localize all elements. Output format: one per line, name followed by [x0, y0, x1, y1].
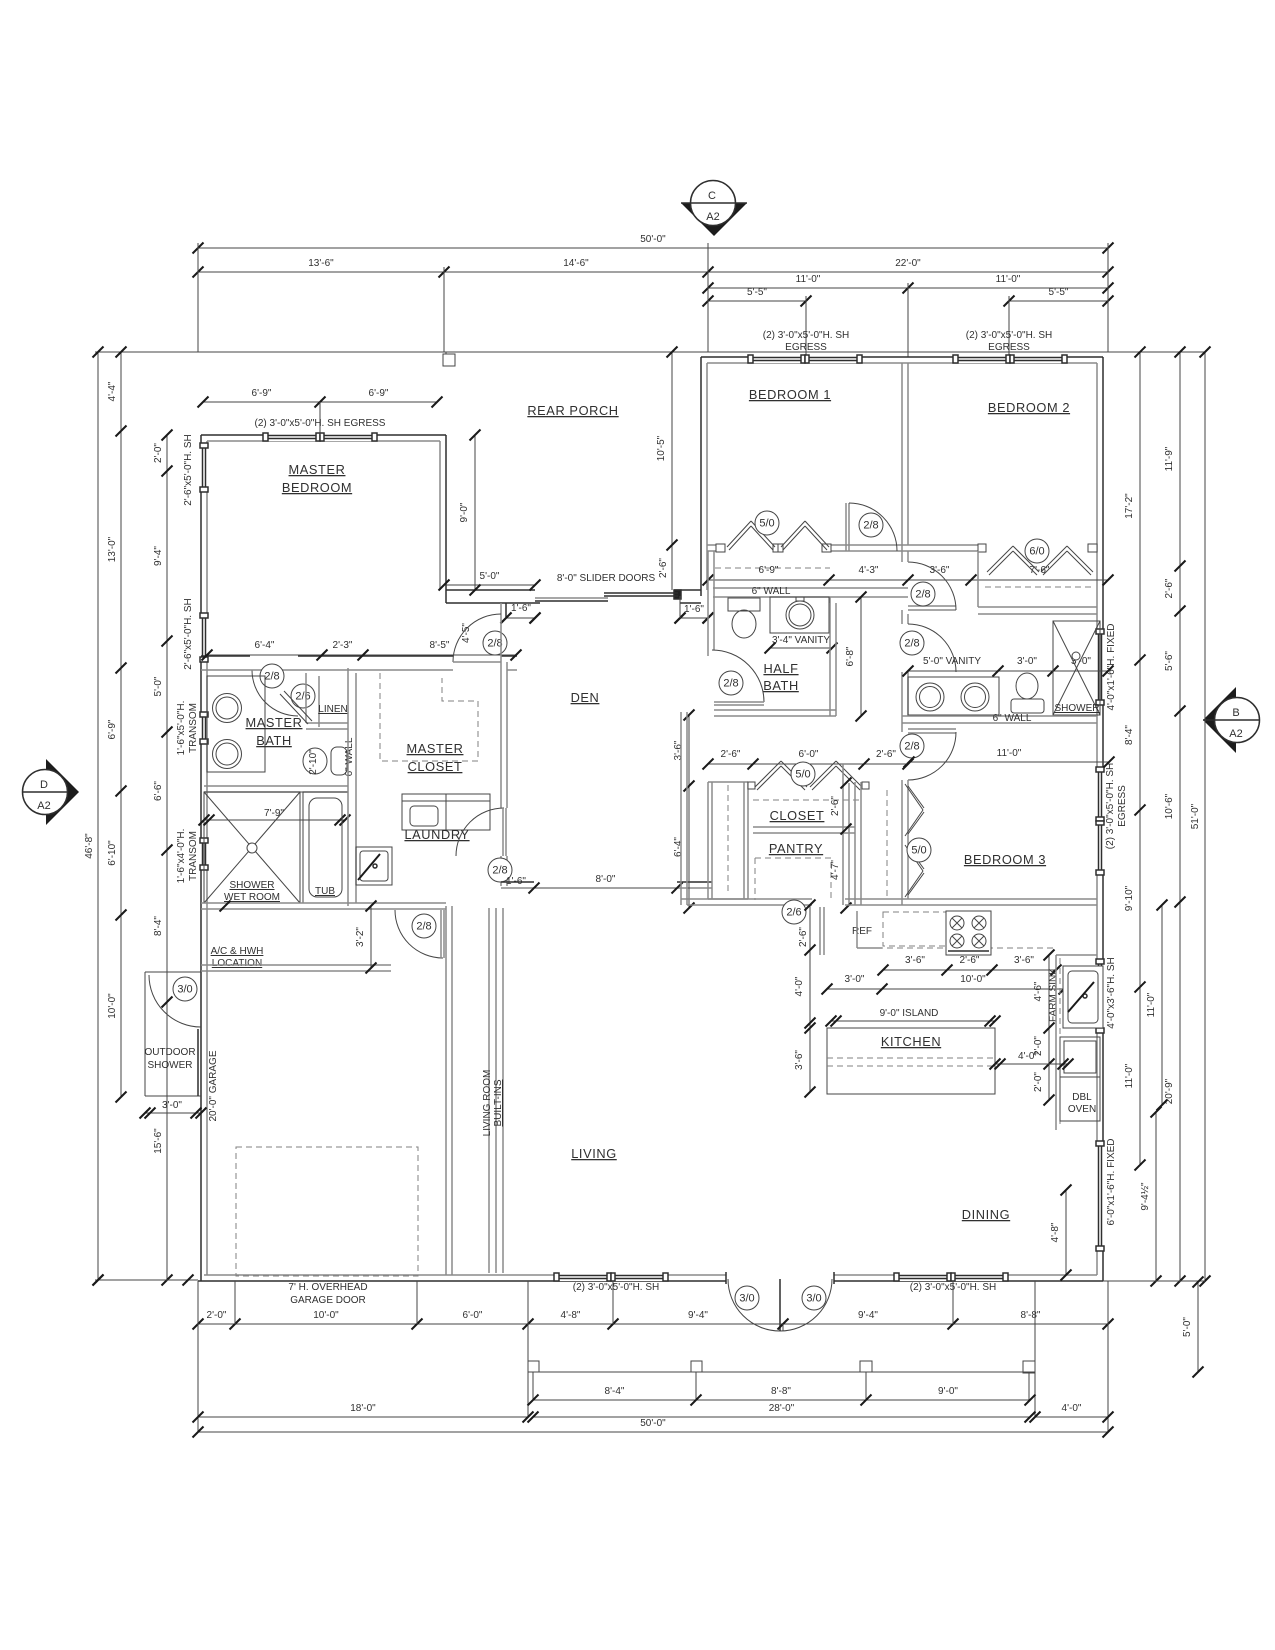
svg-text:6" WALL: 6" WALL	[993, 713, 1032, 724]
bottom wall extension right	[1103, 1280, 1205, 1282]
svg-text:2'-6": 2'-6"	[830, 796, 841, 816]
porch posts bottom	[528, 1361, 539, 1372]
svg-text:TRANSOM: TRANSOM	[188, 831, 199, 881]
svg-text:50'-0": 50'-0"	[640, 1418, 666, 1429]
svg-text:MASTER: MASTER	[407, 741, 464, 756]
kitchen counter dashed edge	[857, 947, 1056, 949]
outdoor shower	[144, 972, 146, 1096]
exterior wall bottom	[198, 1280, 1103, 1282]
svg-text:6'-0"x1'-6"H. FIXED: 6'-0"x1'-6"H. FIXED	[1106, 1138, 1117, 1225]
dim row 5-5 left	[708, 300, 806, 302]
dim 50-0 top	[198, 247, 1108, 249]
svg-text:BATH: BATH	[763, 678, 799, 693]
svg-text:8'-4": 8'-4"	[153, 916, 164, 936]
svg-text:D: D	[40, 779, 48, 791]
master suite dims	[207, 654, 516, 656]
svg-text:6" WALL: 6" WALL	[752, 586, 791, 597]
door marker 3/0 outdoor	[173, 977, 197, 1001]
dbl oven	[1060, 1077, 1100, 1121]
svg-text:1'-6"x4'-0"H.: 1'-6"x4'-0"H.	[176, 829, 187, 884]
dishwasher	[1060, 1037, 1100, 1077]
svg-text:2/8: 2/8	[904, 741, 919, 753]
svg-text:MASTER: MASTER	[289, 462, 346, 477]
master egress dims	[203, 401, 437, 403]
svg-text:10'-0": 10'-0"	[960, 974, 986, 985]
left chain inner	[166, 435, 168, 1280]
door marker 3/0 right	[802, 1286, 826, 1310]
svg-text:3'-0": 3'-0"	[162, 1100, 182, 1111]
bottom extension lines	[197, 1281, 199, 1432]
svg-text:5'-0": 5'-0"	[153, 676, 164, 696]
svg-text:4'-4": 4'-4"	[107, 381, 118, 401]
den hall south wall	[501, 881, 534, 883]
svg-text:2'-6": 2'-6"	[658, 558, 669, 578]
svg-text:9'-4": 9'-4"	[688, 1310, 708, 1321]
exterior wall right	[1102, 357, 1104, 1281]
bedroom2 closet south wall	[978, 606, 1097, 608]
bath laundry divider wall	[347, 668, 349, 906]
svg-text:2'-0": 2'-0"	[207, 1310, 227, 1321]
dim 18-0	[198, 1416, 528, 1418]
svg-text:2/6: 2/6	[295, 691, 310, 703]
shower wet room	[204, 792, 300, 903]
svg-text:20'-0" GARAGE: 20'-0" GARAGE	[208, 1050, 219, 1121]
dim 11-0 kitchen right	[1161, 905, 1163, 1105]
svg-text:5'-5": 5'-5"	[1049, 287, 1069, 298]
half bath door 2/8	[712, 650, 764, 702]
svg-text:6'-4": 6'-4"	[255, 640, 275, 651]
dim 28-0	[533, 1416, 1030, 1418]
closet south wall	[753, 826, 855, 828]
bedroom3 west wall	[854, 782, 856, 905]
masterbath lower divider	[204, 785, 348, 787]
svg-text:EGRESS: EGRESS	[1117, 785, 1128, 827]
ac closet door 2/8	[395, 910, 443, 958]
svg-text:11'-0": 11'-0"	[1124, 1063, 1135, 1088]
svg-text:9'-0": 9'-0"	[938, 1386, 958, 1397]
svg-text:DEN: DEN	[571, 690, 600, 705]
door marker 6/0 bedroom2	[1025, 539, 1049, 563]
svg-text:11'-9": 11'-9"	[1164, 446, 1175, 471]
kitchen left dims	[809, 905, 811, 1092]
exterior wall left	[200, 435, 202, 1281]
svg-text:2'-6": 2'-6"	[960, 955, 980, 966]
svg-text:10'-5": 10'-5"	[656, 435, 667, 461]
svg-text:4'-7": 4'-7"	[830, 860, 841, 880]
slider dims	[444, 584, 535, 586]
svg-text:8'-4": 8'-4"	[1124, 725, 1135, 745]
svg-text:A/C & HWH: A/C & HWH	[211, 946, 264, 957]
dim 50-0 bottom	[198, 1431, 1108, 1433]
bath2 door 2/8	[908, 624, 956, 672]
svg-text:4'-0": 4'-0"	[794, 976, 805, 996]
farm sink	[1063, 966, 1103, 1028]
svg-text:BUILT-INS: BUILT-INS	[493, 1079, 504, 1126]
svg-text:7'-9": 7'-9"	[264, 808, 284, 819]
bath2 vanity	[908, 677, 999, 715]
svg-text:6'-9": 6'-9"	[759, 565, 779, 576]
door marker 2/8 bedroom2	[911, 582, 935, 606]
svg-text:WET ROOM: WET ROOM	[224, 892, 280, 903]
svg-text:3'-6": 3'-6"	[673, 740, 684, 760]
pantry shelves dashed	[755, 858, 831, 900]
bedroom1 south wall	[707, 544, 725, 546]
door marker 5/0 closet	[791, 762, 815, 786]
exterior wall bedroom wing top	[701, 356, 1103, 358]
bath2 toilet	[1016, 673, 1038, 699]
svg-text:A2: A2	[37, 800, 50, 812]
svg-text:BEDROOM 2: BEDROOM 2	[988, 400, 1070, 415]
svg-text:4'-8": 4'-8"	[561, 1310, 581, 1321]
section marker D/A2 left	[46, 759, 79, 825]
bedroom1 door 2/8	[848, 503, 850, 551]
svg-text:EGRESS: EGRESS	[988, 342, 1030, 353]
svg-text:11'-0": 11'-0"	[796, 274, 821, 285]
svg-text:REF: REF	[852, 926, 872, 937]
half bath toilet	[728, 598, 760, 611]
dim 11-0 bedroom3	[909, 761, 1109, 763]
svg-text:2/8: 2/8	[723, 678, 738, 690]
left bottom stub line	[95, 1279, 198, 1281]
exterior wall master top	[201, 434, 446, 436]
dim row 11-0 11-0	[708, 287, 1108, 289]
door marker 2/8 garage hall	[412, 914, 436, 938]
svg-text:10'-0": 10'-0"	[107, 993, 118, 1019]
laundry sink	[356, 847, 392, 885]
svg-text:4'-0": 4'-0"	[1062, 1403, 1082, 1414]
master bath door 2/8	[252, 670, 298, 716]
svg-text:BATH: BATH	[256, 733, 292, 748]
svg-text:3'-0": 3'-0"	[1017, 656, 1037, 667]
bottom dim row 1	[198, 1323, 1108, 1325]
range	[946, 911, 991, 955]
section marker C/A2 top	[681, 203, 747, 236]
ac closet bottom wall	[201, 964, 391, 966]
svg-text:8'-0": 8'-0"	[596, 874, 616, 885]
svg-text:8'-5": 8'-5"	[430, 640, 450, 651]
svg-text:2/8: 2/8	[904, 638, 919, 650]
svg-text:SHOWER: SHOWER	[230, 880, 275, 891]
svg-text:6'-4": 6'-4"	[673, 837, 684, 857]
right chain inner	[1139, 352, 1141, 1165]
right chain mid	[1179, 352, 1181, 1281]
door marker 2/8 master bath	[260, 664, 284, 688]
svg-text:28'-0": 28'-0"	[769, 1403, 795, 1414]
exterior wall master right	[445, 435, 447, 603]
door marker 2/8 half bath	[719, 671, 743, 695]
svg-text:2'-3": 2'-3"	[333, 640, 353, 651]
bedroom3 west wall upper	[901, 727, 903, 732]
svg-text:13'-0": 13'-0"	[107, 536, 118, 562]
svg-text:2'-6": 2'-6"	[721, 749, 741, 760]
svg-text:2'-6"x5'-0"H. SH: 2'-6"x5'-0"H. SH	[183, 598, 194, 670]
ac closet top wall	[201, 902, 446, 904]
bedroom1 closet rod dashed	[715, 567, 830, 569]
svg-text:3/0: 3/0	[739, 1293, 754, 1305]
svg-text:15'-6": 15'-6"	[153, 1128, 164, 1154]
svg-text:LOCATION: LOCATION	[212, 958, 262, 969]
svg-text:51'-0": 51'-0"	[1190, 803, 1201, 829]
svg-text:14'-6": 14'-6"	[563, 258, 589, 269]
door marker 5/0 bedroom3	[907, 838, 931, 862]
island	[827, 1028, 995, 1094]
svg-text:3'-6": 3'-6"	[1014, 955, 1034, 966]
svg-text:GARAGE DOOR: GARAGE DOOR	[290, 1295, 366, 1306]
svg-text:6'-9": 6'-9"	[369, 388, 389, 399]
half bath north wall	[713, 587, 908, 589]
kitchen door 2/6	[819, 907, 821, 955]
dim 5-0 bottom right	[1197, 1282, 1199, 1372]
svg-text:5/0: 5/0	[911, 845, 926, 857]
porch dim row	[533, 1399, 1030, 1401]
dim 3-2 ac	[370, 906, 372, 968]
dim 1-6 master door	[506, 617, 535, 619]
door marker 2/8 bedroom3	[900, 734, 924, 758]
closet pantry dim row	[708, 763, 908, 765]
slider doors 8-0	[535, 600, 608, 602]
svg-text:3'-4" VANITY: 3'-4" VANITY	[772, 635, 830, 646]
svg-text:5/0: 5/0	[759, 518, 774, 530]
svg-text:(2) 3'-0"x5'-0"H. SH: (2) 3'-0"x5'-0"H. SH	[763, 330, 850, 341]
svg-text:11'-0": 11'-0"	[997, 748, 1022, 759]
svg-text:BEDROOM 1: BEDROOM 1	[749, 387, 831, 402]
svg-text:6" WALL: 6" WALL	[344, 737, 355, 776]
bath2 vanity wall dim	[908, 670, 1108, 672]
svg-text:10'-6": 10'-6"	[1164, 793, 1175, 819]
dim 9-0 master right	[474, 435, 476, 590]
svg-text:46'-8": 46'-8"	[84, 833, 95, 859]
svg-text:2/8: 2/8	[264, 671, 279, 683]
bath2 shower	[1053, 621, 1100, 715]
bedroom2 closet wall	[908, 544, 985, 546]
svg-text:8'-8": 8'-8"	[1021, 1310, 1041, 1321]
svg-text:4'-3": 4'-3"	[859, 565, 879, 576]
half bath vanity dim	[770, 647, 832, 649]
washer dryer	[402, 794, 446, 830]
svg-text:2/6: 2/6	[786, 907, 801, 919]
bedrooms divider wall	[901, 363, 903, 545]
pantry east wall	[842, 764, 844, 905]
bedroom interior dim row	[708, 579, 1108, 581]
svg-text:HALF: HALF	[763, 661, 798, 676]
svg-text:CLOSET: CLOSET	[770, 808, 825, 823]
svg-text:1'-6": 1'-6"	[511, 603, 531, 614]
master suite dividing wall	[201, 655, 250, 657]
hall closet strip	[707, 782, 709, 899]
svg-text:50'-0": 50'-0"	[640, 234, 666, 245]
svg-text:3/0: 3/0	[177, 984, 192, 996]
right counter	[1055, 955, 1057, 1130]
svg-text:6'-9": 6'-9"	[252, 388, 272, 399]
svg-text:1'-6"x5'-0"H.: 1'-6"x5'-0"H.	[176, 701, 187, 756]
svg-text:SHOWER: SHOWER	[148, 1060, 193, 1071]
exterior wall porch side of bedroom wing	[700, 357, 702, 596]
half bath south wall	[714, 709, 836, 711]
svg-text:5'-0" VANITY: 5'-0" VANITY	[923, 656, 981, 667]
svg-text:3/0: 3/0	[806, 1293, 821, 1305]
dim 4-8 dining	[1065, 1190, 1067, 1275]
svg-text:2'-6": 2'-6"	[798, 927, 809, 947]
bedroom3 closet bifold 5/0 vertical	[905, 784, 923, 810]
svg-text:(2) 3'-0"x5'-0"H. SH: (2) 3'-0"x5'-0"H. SH	[966, 330, 1053, 341]
toilet master	[331, 747, 347, 775]
svg-text:OUTDOOR: OUTDOOR	[144, 1047, 195, 1058]
dim 3-0 outdoor	[145, 1112, 201, 1114]
svg-text:FARM SINK: FARM SINK	[1048, 968, 1059, 1022]
svg-text:2'-6"x5'-0"H. SH: 2'-6"x5'-0"H. SH	[183, 434, 194, 506]
svg-text:MASTER: MASTER	[246, 715, 303, 730]
island dim	[831, 1020, 995, 1022]
svg-text:9'-4": 9'-4"	[153, 546, 164, 566]
bedroom3 door 2/8	[908, 728, 956, 730]
svg-text:LIVING: LIVING	[571, 1146, 617, 1161]
svg-text:CLOSET: CLOSET	[408, 759, 463, 774]
dim 7-9 wetroom	[204, 819, 345, 821]
bedroom2 closet rod dashed	[985, 586, 1092, 588]
dim 46-8 left	[97, 352, 99, 1280]
svg-text:6'-10": 6'-10"	[107, 840, 118, 866]
svg-text:4'-6": 4'-6"	[1033, 981, 1044, 1001]
hall kitchen wall	[681, 898, 812, 900]
svg-text:13'-6": 13'-6"	[308, 258, 334, 269]
svg-text:OVEN: OVEN	[1068, 1104, 1096, 1115]
svg-text:6'-0": 6'-0"	[799, 749, 819, 760]
door marker 3/0 left	[735, 1286, 759, 1310]
svg-text:10'-0": 10'-0"	[313, 1310, 339, 1321]
svg-text:8'-8": 8'-8"	[771, 1386, 791, 1397]
rear porch slab edge	[445, 352, 447, 366]
svg-text:6/0: 6/0	[1029, 546, 1044, 558]
svg-text:22'-0": 22'-0"	[895, 258, 921, 269]
svg-text:5'-0": 5'-0"	[1182, 1317, 1193, 1337]
bath2 west wall	[901, 545, 903, 562]
svg-text:4'-5": 4'-5"	[461, 623, 472, 643]
svg-text:EGRESS: EGRESS	[785, 342, 827, 353]
svg-text:BEDROOM 3: BEDROOM 3	[964, 852, 1046, 867]
front door pair 3/0	[725, 1272, 727, 1284]
svg-text:B: B	[1232, 707, 1239, 719]
svg-text:4'-8": 4'-8"	[1050, 1222, 1061, 1242]
left chain mid	[120, 352, 122, 1097]
porch slab edge bottom	[528, 1371, 1035, 1373]
svg-text:3'-0": 3'-0"	[845, 974, 865, 985]
half bath sink	[770, 597, 829, 633]
tub	[303, 792, 348, 903]
closet rod dashed hall	[753, 799, 862, 801]
door marker 2/6 kitchen	[782, 900, 806, 924]
svg-text:TRANSOM: TRANSOM	[188, 703, 199, 753]
svg-text:2/8: 2/8	[863, 520, 878, 532]
garage door dashed	[236, 1147, 418, 1276]
svg-text:2/8: 2/8	[416, 921, 431, 933]
svg-text:2'-10": 2'-10"	[308, 749, 319, 775]
svg-text:LIVING ROOM: LIVING ROOM	[482, 1070, 493, 1137]
fridge dashed	[883, 912, 947, 946]
svg-text:11'-0": 11'-0"	[996, 274, 1021, 285]
svg-text:11'-0": 11'-0"	[1146, 992, 1157, 1017]
svg-text:17'-2": 17'-2"	[1124, 493, 1135, 519]
svg-text:2'-0": 2'-0"	[1033, 1072, 1044, 1092]
svg-text:(2) 3'-0"x5'-0"H. SH: (2) 3'-0"x5'-0"H. SH	[1105, 763, 1116, 850]
svg-text:PANTRY: PANTRY	[769, 841, 823, 856]
svg-text:9'-0": 9'-0"	[459, 502, 470, 522]
door marker 2/8 hall	[488, 858, 512, 882]
svg-text:KITCHEN: KITCHEN	[881, 1034, 941, 1049]
counter dims lower	[827, 988, 1064, 990]
closet laundry east wall	[500, 617, 502, 808]
svg-text:DBL: DBL	[1072, 1092, 1092, 1103]
svg-text:3'-2": 3'-2"	[355, 927, 366, 947]
svg-text:2/8: 2/8	[915, 589, 930, 601]
svg-text:8'-0" SLIDER DOORS: 8'-0" SLIDER DOORS	[557, 573, 656, 584]
upper boundary line	[95, 351, 1205, 353]
linen closet	[318, 676, 320, 727]
section marker B/A2 right	[1203, 687, 1236, 753]
door marker 2/6 linen	[291, 684, 315, 708]
bedroom3 closet dashed	[886, 790, 888, 900]
svg-text:5/0: 5/0	[795, 769, 810, 781]
svg-text:1'-6": 1'-6"	[684, 604, 704, 615]
svg-text:2'-6": 2'-6"	[1164, 578, 1175, 598]
svg-text:(2) 3'-0"x5'-0"H. SH: (2) 3'-0"x5'-0"H. SH	[573, 1282, 660, 1293]
svg-text:LINEN: LINEN	[318, 704, 347, 715]
bath2 south wall	[902, 715, 1097, 717]
hall west wall	[680, 712, 682, 905]
svg-text:TUB: TUB	[315, 886, 335, 897]
svg-text:A2: A2	[1229, 728, 1242, 740]
svg-text:9'-0" ISLAND: 9'-0" ISLAND	[880, 1008, 939, 1019]
svg-text:DINING: DINING	[962, 1207, 1010, 1222]
svg-text:6'-6": 6'-6"	[153, 781, 164, 801]
bedroom1 closet bifold 5/0	[727, 521, 751, 547]
bedroom2 door 2/8	[908, 609, 956, 611]
svg-text:2'-0": 2'-0"	[153, 443, 164, 463]
svg-text:5'-6": 5'-6"	[1164, 651, 1175, 671]
dim row 5-5 right	[1009, 300, 1108, 302]
svg-text:LAUNDRY: LAUNDRY	[404, 827, 469, 842]
dim 6-8 hall	[860, 597, 862, 716]
svg-text:(2) 3'-0"x5'-0"H. SH EGRESS: (2) 3'-0"x5'-0"H. SH EGRESS	[255, 418, 386, 429]
svg-text:2'-6": 2'-6"	[876, 749, 896, 760]
svg-text:3'-6": 3'-6"	[905, 955, 925, 966]
hall closet vertical chain	[688, 715, 690, 908]
living built-ins	[488, 908, 490, 1273]
top extension lines	[197, 243, 199, 352]
svg-text:2/8: 2/8	[492, 865, 507, 877]
bedroom2 closet bifold 6/0	[987, 546, 1013, 572]
dim 9-4.5 dining right	[1155, 1112, 1157, 1281]
door marker 5/0 bedroom1	[755, 511, 779, 535]
svg-text:7' H. OVERHEAD: 7' H. OVERHEAD	[288, 1282, 367, 1293]
svg-text:6'-8": 6'-8"	[845, 646, 856, 666]
svg-text:8'-4": 8'-4"	[605, 1386, 625, 1397]
door marker 2/8 bath2	[900, 631, 924, 655]
svg-text:6'-0": 6'-0"	[463, 1310, 483, 1321]
door marker 2/8 master	[483, 631, 507, 655]
dim 51-0 right	[1204, 352, 1206, 1281]
svg-text:3'-6": 3'-6"	[794, 1050, 805, 1070]
rear wall den with slider	[446, 589, 535, 591]
svg-text:BEDROOM: BEDROOM	[282, 480, 352, 495]
svg-text:5'-5": 5'-5"	[747, 287, 767, 298]
dim row 13-6 / 14-6 / 22-0	[198, 271, 1108, 273]
svg-text:A2: A2	[706, 211, 719, 223]
den east wall stub	[707, 551, 709, 656]
svg-text:C: C	[708, 190, 716, 202]
master closet dashed shelving	[380, 673, 478, 761]
dim 4-0 island	[995, 1063, 1068, 1065]
svg-text:9'-4": 9'-4"	[858, 1310, 878, 1321]
